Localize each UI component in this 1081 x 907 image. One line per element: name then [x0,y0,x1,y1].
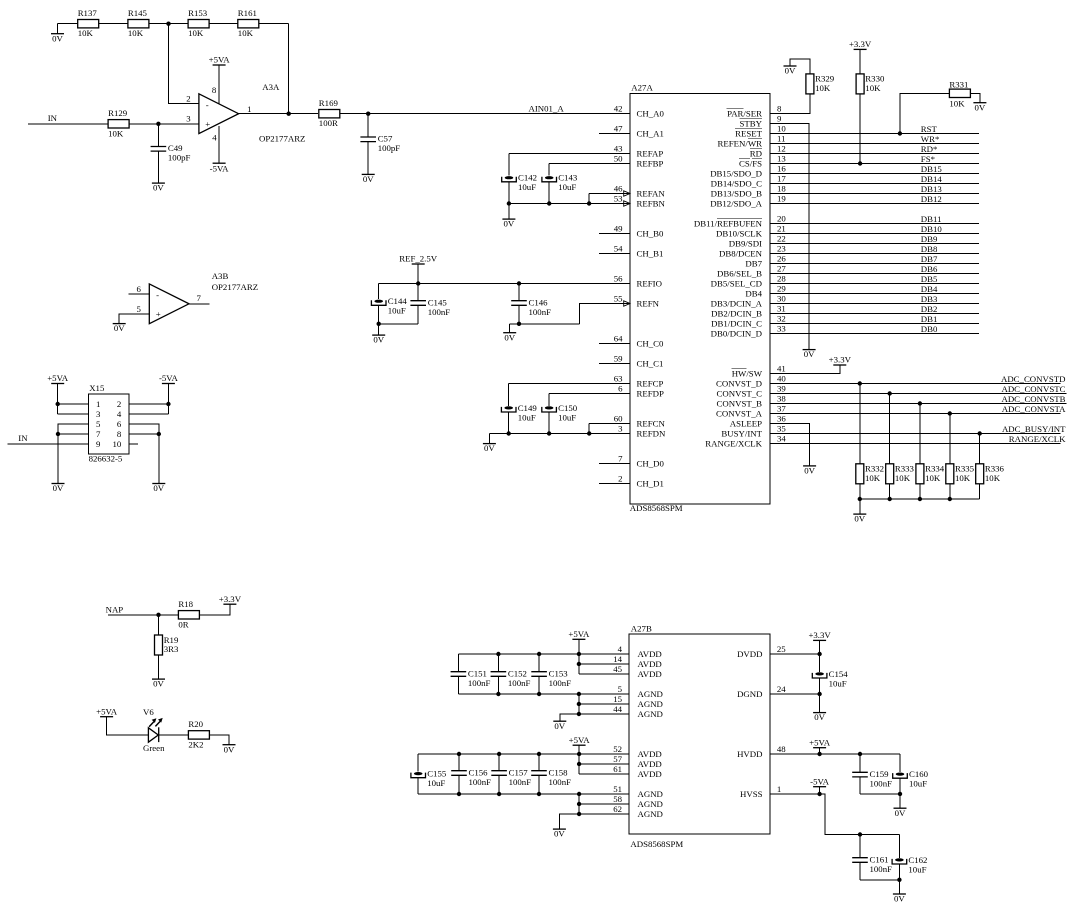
pin 62 AGND labels (A27B) [613,804,663,819]
svg-text:0V: 0V [153,483,164,493]
wire tap down to op-amp pin 2 [169,24,199,104]
junction RST-R331 [898,131,902,135]
pin 53 arrow [624,201,630,206]
svg-text:ADC_CONVSTA: ADC_CONVSTA [1002,404,1066,414]
pin 53 REFBN labels [614,194,666,209]
svg-text:ADC_CONVSTD: ADC_CONVSTD [1001,374,1066,384]
junction pin 62 [577,812,581,816]
svg-text:ADS8568SPM: ADS8568SPM [630,839,683,849]
svg-text:10K: 10K [815,83,831,93]
svg-text:CH_C1: CH_C1 [637,358,664,368]
svg-text:0V: 0V [554,721,565,731]
svg-text:10K: 10K [188,28,204,38]
svg-text:64: 64 [614,334,623,344]
wire op-amp pin 8 supply [218,65,220,104]
svg-text:C154: C154 [829,669,849,679]
svg-text:+5VA: +5VA [209,55,231,65]
pin 63 REFCP labels [614,374,664,389]
capacitor C162 [892,855,927,875]
svg-text:10uF: 10uF [518,412,536,422]
junction +5VA pin 52 [577,752,581,756]
svg-text:DB5: DB5 [921,274,938,284]
svg-text:REFN: REFN [637,298,660,308]
svg-text:7: 7 [96,429,101,439]
svg-text:34: 34 [777,434,786,444]
wire X15 pin 1 [58,403,89,405]
wire R336 bottom [979,484,981,499]
svg-text:16: 16 [777,164,786,174]
wire A3B pin 6 stub [129,293,150,295]
wire C156 top [458,754,460,771]
wire IN net to X15 pin 9 [8,443,89,445]
capacitor C143 [542,173,578,193]
junction C160 bottom [898,792,902,796]
resistor R332 [856,464,884,484]
junction C146 top [517,281,521,285]
svg-text:100nF: 100nF [870,779,893,789]
svg-text:R169: R169 [319,98,339,108]
svg-text:+: + [156,309,161,319]
svg-text:DGND: DGND [737,689,762,699]
svg-text:19: 19 [777,194,786,204]
junction C161 top [858,832,862,836]
IC A27B ADS8568SPM body [629,624,770,850]
resistor R145 [128,8,149,38]
wire X15 pin 5 to ground [58,424,89,484]
svg-text:C144: C144 [388,296,408,306]
power +5VA (X15) [47,373,69,383]
wire C144-C145 ground rail [379,323,419,325]
svg-text:DB12: DB12 [921,194,942,204]
pin 35 BUSY/INT labels [721,424,786,439]
svg-text:DB0: DB0 [921,324,938,334]
junction +5VA pin 4 [577,652,581,656]
junction pin 44 [577,712,581,716]
pin 10 RESET labels [735,124,786,139]
junction REFAN-REFBN [587,201,591,205]
wire down to C49 [157,124,159,147]
svg-text:15: 15 [613,694,622,704]
pin 7 CH_D0 labels [618,454,664,469]
wire C155 top [417,754,419,772]
ground 0V (A27B group 1) [553,721,566,731]
wire net ADC_CONVSTC [770,393,1067,395]
svg-text:C162: C162 [908,855,927,865]
junction C152 bottom [496,692,500,696]
svg-text:CH_D1: CH_D1 [637,478,664,488]
pin 33 DB0/DCIN_D labels [711,324,787,339]
wire C151 top [457,654,459,672]
wire net DB4 [770,293,979,295]
svg-text:+5VA: +5VA [568,629,590,639]
wire C152 top [497,654,499,672]
svg-text:DB8: DB8 [921,244,938,254]
IC A27A ADS8568SPM body [630,83,770,513]
svg-text:BUSY/INT: BUSY/INT [721,428,762,438]
wire AVDD pin 57 [579,763,629,765]
resistor R334 [916,464,945,484]
junction FS*-R330 [858,161,862,165]
capacitor C158 [531,767,571,787]
wire pin 59 stub [599,363,630,365]
wire +3.3V to R330 [859,49,861,74]
capacitor C57 [360,134,400,154]
svg-text:100nF: 100nF [529,307,552,317]
svg-text:10: 10 [113,439,122,449]
svg-text:DB1/DCIN_C: DB1/DCIN_C [711,318,762,328]
svg-text:12: 12 [777,144,786,154]
wire net DB10 [770,233,979,235]
ground 0V (C49) [152,183,165,193]
svg-text:3: 3 [186,114,191,124]
wire REFCN net [589,423,630,425]
svg-text:8: 8 [212,85,217,95]
ground 0V (R20) [223,744,236,754]
LED V6 (Green) [143,707,165,753]
svg-text:WR*: WR* [921,134,940,144]
svg-text:C57: C57 [378,134,393,144]
svg-text:59: 59 [614,354,623,364]
svg-text:C143: C143 [558,173,578,183]
svg-text:DB3/DCIN_A: DB3/DCIN_A [711,298,763,308]
junction pin 15 [577,702,581,706]
svg-text:R137: R137 [78,8,98,18]
svg-text:C160: C160 [909,769,929,779]
wire REFN to chip [580,304,630,324]
pin 55 arrow [624,301,630,306]
svg-text:REFEN/WR: REFEN/WR [718,138,763,148]
wire net DB12 [770,203,979,205]
svg-text:R161: R161 [238,8,257,18]
wire AGND pin 5 rail [458,693,628,695]
wire rail to ground [508,204,510,220]
svg-text:REFAP: REFAP [637,148,664,158]
svg-text:35: 35 [777,424,786,434]
wire REFCN down to rail [588,424,590,434]
wire net DB13 [770,193,979,195]
pin 22 DB9/SDI labels [729,234,786,249]
wire C159 top [859,754,861,772]
pin 59 CH_C1 labels [614,354,664,369]
svg-text:41: 41 [777,364,786,374]
svg-text:0V: 0V [52,33,63,43]
pin 13 CS/FS labels [739,154,786,169]
svg-text:10uF: 10uF [558,412,576,422]
pin 21 DB10/SCLK labels [716,224,786,239]
ground 0V (C146/REFN) [503,332,516,342]
svg-text:CONVST_A: CONVST_A [716,408,763,418]
svg-text:10K: 10K [955,473,971,483]
wire rail to ground (C162) [898,880,900,894]
wire R335 top [949,414,951,465]
svg-text:DB7: DB7 [745,258,762,268]
resistor R137 [78,8,99,38]
wire C157 bottom [498,775,500,794]
svg-text:DB1: DB1 [921,314,938,324]
junction DGND [817,692,821,696]
wire C161 bottom [859,862,861,880]
capacitor C161 [852,854,892,874]
svg-text:51: 51 [613,784,622,794]
svg-text:63: 63 [614,374,623,384]
svg-text:100pF: 100pF [378,143,401,153]
wire AVDD pin 52 rail [418,753,629,755]
wire C144 to rail [378,305,380,324]
svg-text:13: 13 [777,154,786,164]
svg-text:X15: X15 [89,383,105,393]
wire net DB11 [770,223,979,225]
svg-text:-: - [156,290,159,300]
svg-text:CH_B1: CH_B1 [637,248,664,258]
wire R336 top [979,434,981,465]
junction AGND vertical top (group 2) [577,792,581,796]
wire net ADC_CONVSTD [770,383,1061,385]
svg-text:39: 39 [777,384,786,394]
pin 11 REFEN/WR labels [718,134,786,149]
junction C57 node [366,112,370,116]
resistor R169 [319,98,340,128]
svg-text:46: 46 [614,184,623,194]
svg-text:2: 2 [117,399,121,409]
pin 38 CONVST_B labels [717,394,787,409]
wire REFAN down to rail [588,194,590,204]
power +5VA (LED) [96,706,118,716]
svg-text:4: 4 [117,409,122,419]
wire AGND vertical (group 2) [578,794,580,814]
svg-text:DB7: DB7 [921,254,938,264]
pin 18 DB13/SDO_B labels [711,184,787,199]
wire R129 to op-amp pin 3 [129,123,199,125]
svg-text:R153: R153 [188,8,208,18]
svg-text:DB2: DB2 [921,304,938,314]
svg-text:10uF: 10uF [427,778,445,788]
svg-text:AGND: AGND [638,789,663,799]
pin 25 DVDD labels (A27B) [737,644,786,659]
wire C49 to ground [157,151,159,183]
svg-text:0V: 0V [895,808,906,818]
svg-text:3: 3 [618,424,623,434]
junction C143 bottom [547,201,551,205]
svg-text:C146: C146 [529,297,549,307]
junction C153 top [537,652,541,656]
wire DGND pin 24 [770,693,820,695]
ground 0V (STBY) [803,349,816,359]
wire net DB5 [770,283,979,285]
wire AGND vertical (group 1) [578,694,580,714]
svg-text:FS*: FS* [921,154,935,164]
svg-text:STBY: STBY [740,118,763,128]
pin 42 CH_A0 labels [614,104,665,119]
svg-text:REFDP: REFDP [637,388,664,398]
svg-text:DB8/DCEN: DB8/DCEN [719,248,763,258]
wire REFAP net [509,153,630,155]
wire net RANGE/XCLK [770,443,1061,445]
svg-text:10: 10 [777,124,786,134]
wire HVDD pin 48 net [770,753,900,755]
power +5VA (A3A pin 8) [209,55,231,65]
junction C158 top [537,752,541,756]
pin 46 arrow [624,191,630,196]
svg-text:DB14/SDO_C: DB14/SDO_C [711,178,762,188]
junction -5VA HVSS [817,792,821,796]
svg-text:57: 57 [613,754,622,764]
svg-text:V6: V6 [143,707,154,717]
wire C152 bottom [497,676,499,694]
wire C150 to rail [548,412,550,434]
wire C153 top [538,654,540,672]
wire C159-C160 ground rail [860,793,900,795]
wire NAP down to R19 [158,615,160,635]
svg-text:100nF: 100nF [508,678,531,688]
svg-text:RD: RD [750,148,762,158]
pin 49 CH_B0 labels [614,224,664,239]
wire net RST [770,133,979,135]
junction X15 pin 8 [157,432,161,436]
wire R20 to ground [209,735,229,745]
wire net FS* [770,163,979,165]
wire R153-R161 [209,23,238,25]
ground 0V (ASLEEP) [803,466,816,476]
wire op-amp output [239,113,318,115]
capacitor C145 [410,297,450,317]
svg-text:DB15: DB15 [921,164,943,174]
svg-text:47: 47 [614,124,623,134]
svg-text:62: 62 [613,804,622,814]
junction ADC_CONVSTA pulldown [948,411,952,415]
resistor R19 [155,635,179,655]
svg-text:C155: C155 [427,769,447,779]
svg-text:0V: 0V [484,443,495,453]
junction R332 rail [858,497,862,501]
wire X15 pin 8 [129,433,159,435]
junction R334 rail [918,497,922,501]
svg-text:33: 33 [777,324,786,334]
svg-text:50: 50 [614,154,623,164]
resistor R153 [188,8,209,38]
svg-text:DB10: DB10 [921,224,943,234]
svg-text:DB9: DB9 [921,234,938,244]
power +3.3V (R18) [219,594,242,604]
svg-text:REFBP: REFBP [637,158,664,168]
svg-text:38: 38 [777,394,786,404]
svg-text:AVDD: AVDD [638,749,662,759]
wire REF_2.5V stub [417,264,419,284]
svg-text:REFCP: REFCP [637,378,664,388]
wire X15 pin 10 stub [129,443,138,445]
svg-text:0V: 0V [224,744,235,754]
wire C57 to ground [367,142,369,175]
svg-text:C153: C153 [549,668,569,678]
junction ADC_CONVSTC pulldown [888,391,892,395]
wire net WR* [770,143,979,145]
svg-text:18: 18 [777,184,786,194]
svg-text:DB3: DB3 [921,294,938,304]
pin 1 HVSS labels (A27B) [740,784,781,799]
ground 0V (C161/C162) [893,894,906,904]
wire AVDD pin 61 [579,773,629,775]
svg-text:0V: 0V [804,466,815,476]
wire net DB2 [770,313,979,315]
wire REFDP down to C150 [548,394,550,406]
wire rail to ground (REFDN) [488,434,490,444]
svg-text:0V: 0V [504,219,515,229]
power -5VA (HVSS) [810,776,830,786]
svg-text:RANGE/XCLK: RANGE/XCLK [705,438,762,448]
svg-text:10K: 10K [78,28,94,38]
svg-text:48: 48 [777,744,786,754]
junction C144 bottom [377,322,381,326]
wire C162 top [898,835,900,858]
pin 39 CONVST_C labels [717,384,787,399]
svg-text:Green: Green [143,743,165,753]
junction C156 bottom [457,792,461,796]
wire REFDP net [549,393,630,395]
wire AGND pin 51 rail [418,793,629,795]
svg-text:HW/SW: HW/SW [732,368,763,378]
ground 0V (left of R137) [51,33,64,43]
wire C155 bottom [417,778,419,794]
wire X15 pin 3 [58,413,89,415]
svg-text:49: 49 [614,224,623,234]
power +3.3V (DVDD) [808,630,831,640]
svg-text:C142: C142 [518,173,537,183]
wire rail to ground (pulldowns) [859,499,861,514]
svg-text:826632-5: 826632-5 [89,454,123,464]
wire net DB0 [770,333,979,335]
svg-text:10uF: 10uF [909,779,927,789]
svg-text:ADS8568SPM: ADS8568SPM [630,503,683,513]
svg-text:3: 3 [96,409,101,419]
junction R333 rail [888,497,892,501]
svg-text:0V: 0V [975,102,986,112]
junction C157 bottom [497,792,501,796]
svg-text:52: 52 [613,744,622,754]
pin 3 REFDN labels [618,424,666,439]
resistor R329 [806,74,835,94]
junction C149 bottom [507,431,511,435]
pin 27 DB6/SEL_B labels [717,264,786,279]
svg-text:27: 27 [777,264,786,274]
pin 28 DB5/SEL_CD labels [711,274,787,289]
svg-text:C49: C49 [168,143,183,153]
wire R137-R145 [99,23,128,25]
power +5VA (A27B AVDD group 2) [569,735,591,745]
svg-text:1: 1 [247,104,251,114]
wire R18 to +3.3V [199,604,230,615]
ground 0V (C149/C150) [483,443,496,453]
svg-text:28: 28 [777,274,786,284]
svg-text:53: 53 [614,194,623,204]
svg-text:ADC_CONVSTC: ADC_CONVSTC [1001,384,1065,394]
capacitor C150 [542,403,578,423]
wire R145-R153 [149,23,188,25]
svg-text:100R: 100R [319,118,338,128]
resistor R129 [108,108,129,138]
svg-text:DB4: DB4 [921,284,938,294]
svg-text:1: 1 [777,784,781,794]
svg-text:A27B: A27B [631,624,652,634]
svg-text:PAR/SER: PAR/SER [727,108,762,118]
capacitor C155 [411,769,447,789]
svg-text:RANGE/XCLK: RANGE/XCLK [1009,434,1066,444]
junction C49 node [156,122,160,126]
svg-text:DB11/REFBUFEN: DB11/REFBUFEN [694,218,763,228]
pin 37 CONVST_A labels [716,404,786,419]
pin 55 REFN labels [614,294,660,309]
pin 58 AGND labels (A27B) [613,794,663,809]
svg-text:8: 8 [777,104,782,114]
resistor R333 [886,464,915,484]
